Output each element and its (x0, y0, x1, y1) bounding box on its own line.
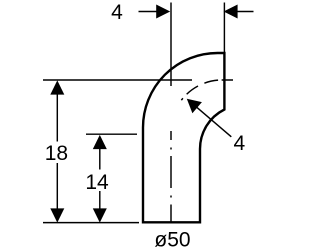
dimension 14: up arrow (93, 135, 107, 149)
leader arrow for radius 4 (197, 107, 232, 137)
dimension 18: up arrow (50, 80, 64, 94)
top dimension 4: right arrow (237, 11, 254, 13)
centerline bend arc (dash-dot) (171, 80, 233, 131)
svg-text:18: 18 (45, 142, 68, 165)
dimension 14: down arrow (99, 191, 101, 210)
svg-text:4: 4 (111, 1, 123, 24)
centerline of bend (dash-dot) (170, 131, 172, 223)
top dimension 4: left arrow (139, 11, 158, 13)
horizontal extension line for 18 (outlet centerline extended) (43, 79, 192, 81)
svg-text:ø50: ø50 (154, 228, 190, 250)
extension line for 14 (86, 133, 137, 135)
top left extension line (inlet axis extended) (170, 3, 172, 87)
svg-text:14: 14 (85, 171, 109, 194)
svg-text:4: 4 (234, 132, 246, 155)
bottom baseline extension line (43, 222, 139, 224)
dimension 18: down arrow (56, 163, 58, 210)
top right extension line (outlet end face extended) (223, 3, 225, 54)
pipe elbow outline (143, 53, 224, 222)
